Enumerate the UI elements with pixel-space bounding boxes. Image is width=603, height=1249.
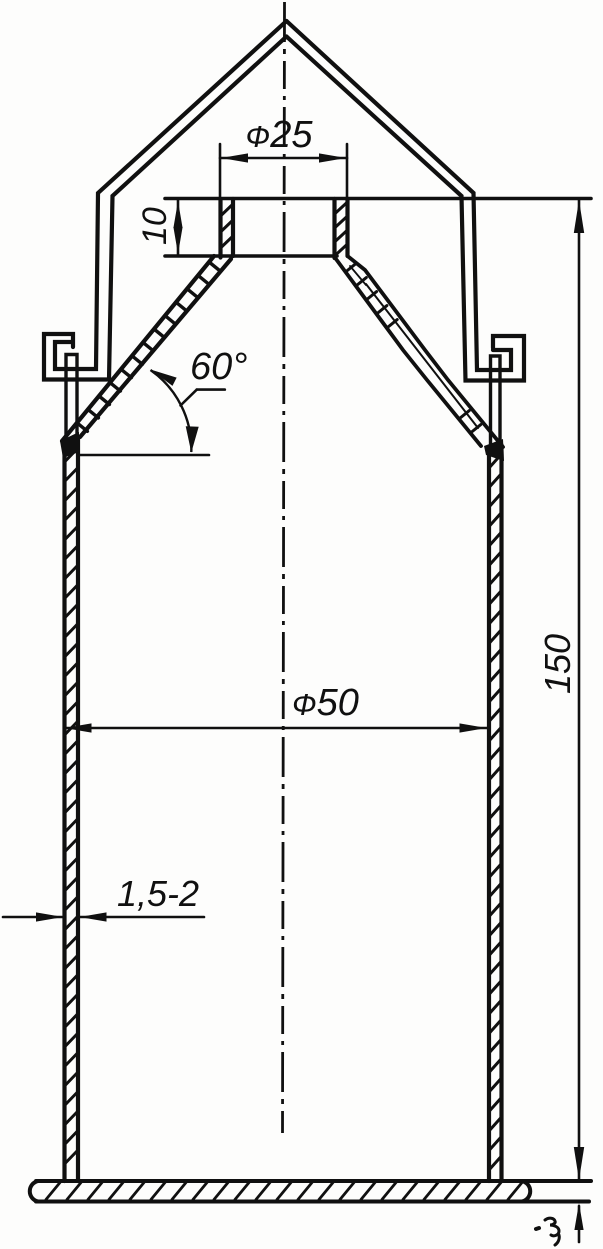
right cylinder wall (hatched) xyxy=(487,447,491,1181)
dim 1,5-2 right leader line with arrowhead xyxy=(80,916,204,919)
dim F50 left arrowhead xyxy=(65,723,92,732)
right rod / pin under seam xyxy=(491,356,501,448)
dim F25 right extension line xyxy=(346,144,349,197)
svg-text:1,5-2: 1,5-2 xyxy=(117,873,199,914)
neck right wall (hatched) xyxy=(332,199,336,258)
dim 150 dimension line xyxy=(578,200,581,1180)
cover inner surface line, right slope + right seam outer rectangle with cut-edge stub xyxy=(287,37,525,381)
left rod / pin under seam xyxy=(66,355,77,447)
dim 10 top arrowhead xyxy=(173,201,182,228)
60deg reference horizontal line xyxy=(78,454,209,457)
right cone shoulder wall, outer (upper-right) edge xyxy=(348,256,504,447)
60deg angle arc xyxy=(151,370,192,452)
svg-text:60°: 60° xyxy=(190,346,247,388)
right cone shoulder wall, inner (lower-left) edge xyxy=(335,257,482,446)
60deg arc lower arrowhead xyxy=(185,426,199,452)
right cone ladder hatching xyxy=(346,264,356,272)
dim 150 top arrowhead xyxy=(574,200,584,233)
dim F50 right arrowhead xyxy=(460,723,487,732)
dim F25 left arrowhead xyxy=(221,153,248,162)
dim 10 bottom arrowhead xyxy=(173,227,182,254)
base plate rounded right end xyxy=(522,1181,530,1202)
cover outer surface line, right slope + right seam inner rectangle xyxy=(287,21,512,370)
base plate top edge (extends right as extension line) xyxy=(36,1179,591,1183)
left cone ladder hatching xyxy=(209,262,219,271)
dim 150 bottom arrowhead xyxy=(574,1147,584,1180)
cover inner surface line, left slope + left seam outer rectangle with cut-edge stub xyxy=(44,37,287,380)
left cone shoulder wall, outer (upper-left) edge xyxy=(62,256,214,441)
right cone tip / wall junction blob xyxy=(484,439,504,461)
dim 1,5-2 left leader line with arrowhead xyxy=(3,916,40,919)
left cylinder wall (hatched) xyxy=(62,441,66,1181)
dim 10 dimension line xyxy=(177,200,180,255)
base plate hatching xyxy=(46,1183,60,1200)
60deg leader diagonal xyxy=(181,390,197,406)
svg-text:10: 10 xyxy=(136,207,174,245)
neck left wall (hatched) xyxy=(218,199,222,258)
neck top edge line (also extension line for dims 10 and 150) xyxy=(165,197,591,201)
60deg leader underline xyxy=(197,388,225,391)
svg-text:Ф25: Ф25 xyxy=(246,114,314,156)
base plate rounded left end xyxy=(30,1181,38,1202)
left cone shoulder wall, inner (lower-right) edge xyxy=(80,259,231,437)
dim F25 left extension line xyxy=(219,144,222,197)
svg-text:Ф50: Ф50 xyxy=(292,682,359,724)
60deg arc upper arrowhead xyxy=(148,365,176,385)
vertical centerline (dash-dot axis) xyxy=(283,2,285,1133)
right cone second thin streak xyxy=(350,266,366,285)
svg-text:150: 150 xyxy=(537,634,578,694)
dim F50 dimension line xyxy=(64,727,487,730)
neck bottom edge line (also extension for dim 10) xyxy=(165,254,337,258)
dim F25 dimension line xyxy=(220,157,347,160)
cover outer surface line, left slope + left seam inner rectangle xyxy=(55,21,287,369)
below-plate arrow pointing up to plate bottom xyxy=(578,1206,581,1242)
left cone tip / wall junction blob xyxy=(60,432,79,458)
bottom-right handwritten scribble mark xyxy=(536,1228,539,1229)
base plate bottom edge xyxy=(36,1200,589,1204)
dim F25 right arrowhead xyxy=(319,153,346,162)
right cone inner thin hatch streak xyxy=(366,284,478,428)
